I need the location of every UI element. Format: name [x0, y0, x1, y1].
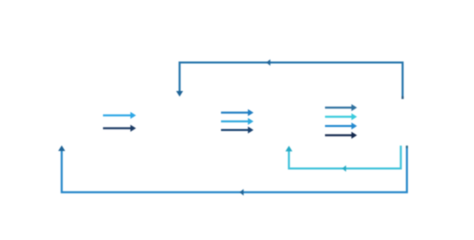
wire start cap (dark tip) of bottom loop right vertical	[406, 146, 408, 149]
wire bottom outer feedback loop	[62, 146, 407, 192]
arrowhead top loop left-pointing (mid top wire)	[266, 59, 270, 66]
arrowhead bottom loop up-pointing	[58, 145, 65, 151]
arrowhead cyan loop up-pointing	[285, 146, 292, 152]
arrow group1 arrow1 light blue	[103, 112, 136, 119]
arrowhead bottom loop left-pointing (mid bottom wire)	[240, 189, 244, 196]
arrow group2 arrow3 dark navy	[221, 127, 254, 134]
arrow group2 arrow2 light blue	[221, 118, 254, 125]
arrow group1 arrow2 dark navy	[103, 125, 136, 132]
arrow group3 arrow2 cyan	[325, 113, 357, 120]
arrow group3 arrow4 darkest navy	[325, 132, 357, 139]
wire inner cyan feedback loop	[289, 146, 401, 169]
wire top feedback loop	[180, 63, 403, 100]
wire end cap (dark tip) of top loop right vertical	[402, 96, 404, 99]
arrow group3 arrow1 steel blue	[325, 104, 357, 111]
arrowhead top loop down-pointing	[176, 91, 183, 97]
arrow group3 arrow3 bright blue	[325, 123, 357, 130]
arrow group2 arrow1 medium blue	[221, 109, 254, 116]
arrowhead cyan loop left-pointing (mid cyan wire)	[342, 165, 346, 172]
